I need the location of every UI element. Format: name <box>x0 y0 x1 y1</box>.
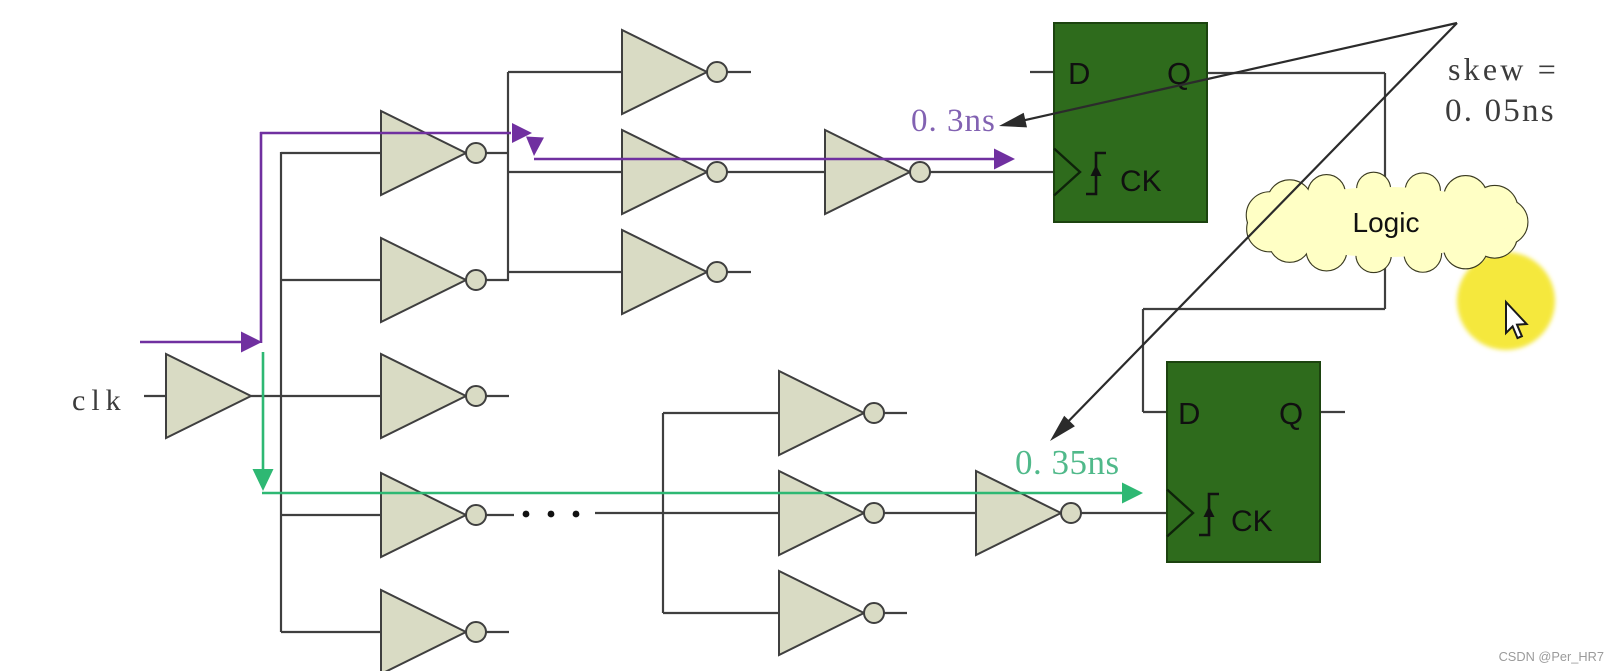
svg-text:skew =: skew = <box>1448 51 1559 87</box>
wire FF2 Q output stub <box>1319 411 1345 413</box>
inverter U5 (level2 row E) <box>381 590 486 671</box>
wire horizontal y=309 <box>1143 308 1385 310</box>
inverter U6 (level3 top) <box>622 30 727 114</box>
green path horizontal arrow <box>262 483 1143 504</box>
wire dots to bottom tree <box>595 512 779 514</box>
green path vertical arrow <box>253 352 274 491</box>
svg-text:0. 05ns: 0. 05ns <box>1445 93 1556 129</box>
wire clk input stub <box>144 395 166 397</box>
wire trunk to row-D <box>281 514 381 516</box>
wire U4 output stub <box>486 514 514 516</box>
node ellipsis dots <box>523 511 580 518</box>
purple path jog arrow <box>526 137 544 157</box>
svg-text:CK: CK <box>1231 505 1273 538</box>
wire U3 output stub <box>486 395 509 397</box>
wire U1 output stub <box>486 152 509 154</box>
purple path upper horizontal arrow <box>260 123 532 143</box>
wire to U7 <box>508 171 622 173</box>
wire into FF2 D <box>1143 411 1168 413</box>
wire U10 output stub <box>884 412 907 414</box>
purple path vertical <box>260 132 263 343</box>
wire trunk to row-E <box>281 631 381 633</box>
wire U9 to FF1 CK <box>930 171 1056 173</box>
wire U2 output stub <box>486 279 509 281</box>
wire root to row-C <box>251 395 381 397</box>
svg-text:0. 35ns: 0. 35ns <box>1015 443 1120 482</box>
inverter U8 (level3 bottom) <box>622 230 727 314</box>
inverter U10 (bottom tree top) <box>779 371 884 455</box>
svg-text:D: D <box>1068 56 1090 91</box>
wire U12 output stub <box>884 612 907 614</box>
buffer U0 (clk root buffer) <box>166 354 251 438</box>
highlight circle <box>1457 252 1555 350</box>
svg-text:CSDN @Per_HR7: CSDN @Per_HR7 <box>1499 649 1604 664</box>
wire to U12 <box>663 612 779 614</box>
purple path entry arrow <box>140 332 262 353</box>
wire vertical x=508 <box>507 72 509 280</box>
inverter U7 (level3 mid) <box>622 130 727 214</box>
wire U7 to U9 <box>727 171 825 173</box>
svg-text:CK: CK <box>1120 165 1162 198</box>
wire to U8 <box>508 271 622 273</box>
inverter U3 (level2 row C) <box>381 354 486 438</box>
logic cloud <box>1247 173 1528 272</box>
wire U13 to FF2 CK <box>1081 512 1168 514</box>
inverter U9 (level4 before FF1) <box>825 130 930 214</box>
wire to U10 <box>663 412 779 414</box>
wire vertical x=1385 (Q1 down) <box>1384 73 1386 309</box>
svg-text:Logic: Logic <box>1353 207 1420 238</box>
wire vertical x=1143 <box>1142 309 1144 412</box>
inverter U4 (level2 row D) <box>381 473 486 557</box>
mouse cursor <box>1506 302 1527 338</box>
wire U5 output stub <box>486 631 509 633</box>
skew leader line B <box>1050 23 1457 441</box>
inverter U2 (level2 row B) <box>381 238 486 322</box>
skew leader line A <box>999 23 1457 127</box>
svg-text:Q: Q <box>1279 396 1303 431</box>
wire trunk to row-A <box>281 152 381 154</box>
wire trunk to row-B <box>281 279 381 281</box>
svg-text:clk: clk <box>72 384 127 417</box>
svg-text:D: D <box>1178 396 1200 431</box>
flip-flop U14 (top FF) <box>1054 23 1207 222</box>
wire to U6 <box>508 71 622 73</box>
wire FF1 Q to corner <box>1206 72 1385 74</box>
wire vertical x=663 <box>662 413 664 613</box>
inverter U12 (bottom tree bottom) <box>779 571 884 655</box>
wire trunk vertical x=281 <box>280 152 282 632</box>
wire U8 output stub <box>727 271 751 273</box>
wire U6 output stub <box>727 71 751 73</box>
inverter U11 (bottom tree mid) <box>779 471 884 555</box>
flip-flop U15 (bottom FF) <box>1167 362 1320 562</box>
svg-text:0. 3ns: 0. 3ns <box>911 103 996 139</box>
wire FF1 D input stub <box>1030 71 1056 73</box>
inverter U13 (final before FF2) <box>976 471 1081 555</box>
purple path to FF1 arrow <box>534 149 1015 170</box>
inverter U1 (level2 row A) <box>381 111 486 195</box>
wire U11 to U13 <box>884 512 976 514</box>
